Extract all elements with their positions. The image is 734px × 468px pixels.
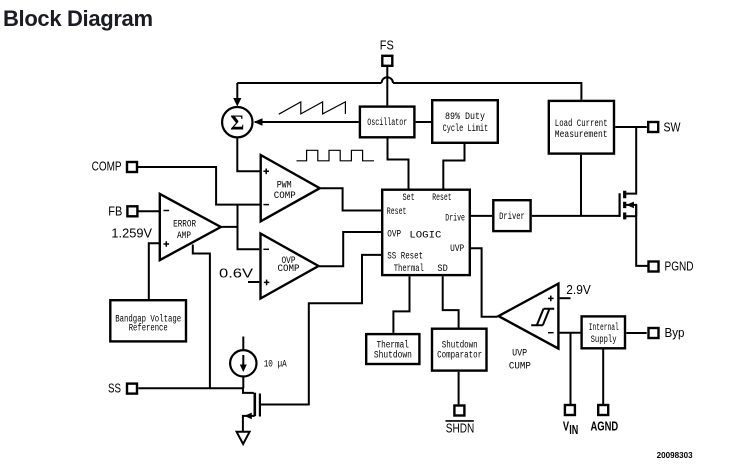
svg-text:PGND: PGND bbox=[665, 260, 694, 274]
svg-text:ERROR: ERROR bbox=[173, 219, 196, 230]
svg-text:CUMP: CUMP bbox=[509, 361, 531, 372]
svg-text:Drive: Drive bbox=[445, 213, 465, 225]
svg-text:SS: SS bbox=[108, 382, 121, 396]
svg-text:AGND: AGND bbox=[591, 420, 619, 434]
svg-text:Byp: Byp bbox=[665, 326, 685, 340]
svg-text:Block Diagram: Block Diagram bbox=[3, 6, 153, 31]
svg-text:10 µA: 10 µA bbox=[264, 359, 287, 370]
svg-text:Comparator: Comparator bbox=[437, 351, 482, 362]
svg-text:AMP: AMP bbox=[177, 231, 191, 242]
svg-text:COMP: COMP bbox=[278, 264, 300, 275]
svg-text:Shutdown: Shutdown bbox=[374, 350, 412, 362]
svg-text:PWM: PWM bbox=[277, 181, 292, 192]
svg-text:0.6V: 0.6V bbox=[219, 266, 254, 280]
svg-text:SHDN: SHDN bbox=[446, 421, 475, 435]
svg-text:89% Duty: 89% Duty bbox=[445, 112, 485, 123]
svg-text:Set: Set bbox=[402, 193, 414, 204]
svg-text:Oscillator: Oscillator bbox=[367, 117, 407, 129]
svg-text:COMP: COMP bbox=[274, 191, 296, 202]
svg-text:SS Reset: SS Reset bbox=[387, 252, 423, 263]
svg-text:UVP: UVP bbox=[512, 349, 527, 360]
svg-text:2.9V: 2.9V bbox=[566, 283, 591, 297]
svg-text:COMP: COMP bbox=[92, 160, 122, 174]
svg-text:FB: FB bbox=[108, 205, 122, 219]
svg-text:IN: IN bbox=[569, 423, 578, 437]
svg-text:OVP: OVP bbox=[387, 229, 401, 240]
svg-text:20098303: 20098303 bbox=[657, 450, 693, 460]
svg-text:LOGIC: LOGIC bbox=[409, 231, 441, 242]
svg-text:Load Current: Load Current bbox=[555, 118, 608, 130]
svg-text:Supply: Supply bbox=[591, 334, 617, 346]
svg-text:SD: SD bbox=[437, 264, 447, 275]
svg-text:Reset: Reset bbox=[387, 207, 407, 218]
svg-text:SW: SW bbox=[664, 121, 681, 135]
svg-text:1.259V: 1.259V bbox=[111, 227, 152, 241]
svg-text:FS: FS bbox=[380, 39, 394, 53]
svg-text:Cycle Limit: Cycle Limit bbox=[443, 123, 489, 135]
svg-text:Internal: Internal bbox=[589, 322, 619, 334]
svg-text:Driver: Driver bbox=[499, 211, 525, 223]
svg-text:Reference: Reference bbox=[129, 322, 168, 334]
svg-text:UVP: UVP bbox=[450, 244, 464, 255]
svg-text:Σ: Σ bbox=[230, 110, 244, 134]
svg-text:Thermal: Thermal bbox=[394, 263, 424, 275]
svg-text:Measurement: Measurement bbox=[555, 130, 608, 141]
svg-text:Reset: Reset bbox=[432, 193, 451, 204]
